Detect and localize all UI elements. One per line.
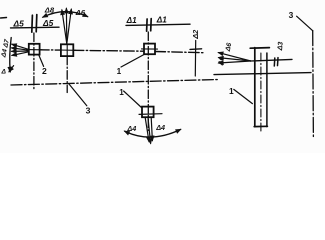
support square 4 — [142, 107, 154, 118]
svg-text:Δ4: Δ4 — [126, 124, 136, 133]
wire: main centre line segment 1 — [40, 49, 61, 51]
svg-text:Δ6: Δ6 — [218, 56, 227, 67]
svg-text:Δ4: Δ4 — [155, 123, 165, 132]
node: top cap of plate — [250, 47, 269, 50]
wire: cross inside support 1 — [27, 49, 43, 51]
wire: main centre line segment 3 — [155, 52, 204, 53]
wire: common vertical axis of supports 3 and 4 (dash-dot) — [147, 32, 149, 131]
wire: stray dash top-left corner — [1, 17, 7, 20]
svg-text:1: 1 — [117, 67, 122, 76]
node: label 2 with leader — [39, 55, 44, 66]
node: label 1 lower with leader — [124, 91, 142, 108]
svg-text:Δ6: Δ6 — [75, 8, 86, 17]
node: label 1 of right figure with leader — [234, 89, 253, 103]
svg-text:1: 1 — [119, 88, 124, 97]
svg-text:Δ6: Δ6 — [225, 42, 234, 53]
wire: lower horizontal line of right figure — [214, 73, 311, 75]
node: fan of arrows below support 4 — [145, 118, 149, 142]
wire: vertical axis of support 1 (dash-dot) — [33, 33, 35, 91]
node: parallelism annotation ∆5 line above support 1 — [11, 26, 60, 29]
node: dimension ∆2 at right end of centre line — [194, 41, 196, 77]
node: parallel bars on axis of support 1 — [31, 15, 34, 32]
node: label 1 upper with leader — [121, 55, 144, 67]
svg-text:Δ1: Δ1 — [126, 16, 137, 25]
svg-text:Δ5: Δ5 — [13, 19, 25, 29]
svg-text:Δ1: Δ1 — [156, 15, 167, 24]
node: label 3 with leader — [69, 84, 87, 106]
svg-text:Δ: Δ — [1, 69, 7, 76]
node: bottom cap of plate — [254, 125, 267, 127]
node: arc over support 2 — [43, 12, 88, 18]
svg-text:Δ5: Δ5 — [42, 18, 54, 28]
node: parallel bars on axis of support 3 — [146, 19, 149, 31]
svg-text:Δ3: Δ3 — [277, 41, 285, 51]
wire: main centre line segment 2 — [73, 49, 144, 52]
wire: short horizontal line through support 4 — [139, 113, 162, 116]
support square 3 — [144, 44, 155, 55]
node: parallelism annotation ∆1 above support 3 — [126, 24, 190, 25]
svg-text:3: 3 — [289, 10, 294, 20]
support square 1 — [29, 44, 40, 55]
node: arc below support 4 — [125, 129, 181, 137]
node: fan of arrows into right figure — [218, 53, 250, 61]
svg-text:2: 2 — [42, 66, 47, 76]
node: fan of arrows above support 2 — [62, 10, 67, 44]
wire: upper horizontal line of right figure — [251, 59, 292, 61]
wire: axis of plate (dash-dot) — [260, 53, 262, 132]
node: small arrow with label near left edge bottom — [9, 66, 14, 72]
node: label 3 top right with leader — [297, 16, 313, 31]
svg-text:3: 3 — [86, 106, 91, 116]
node: parallel bars right of plate — [273, 58, 276, 66]
node: fan of locating arrows into support 1 — [12, 44, 29, 49]
svg-text:Δ2: Δ2 — [191, 29, 200, 40]
wire: vertical axis of support 2 (dash-dot) — [66, 56, 68, 92]
wire: right vertical boundary line (long dash-dot) — [312, 31, 315, 139]
support square 2 — [61, 44, 73, 56]
svg-text:Δ8: Δ8 — [44, 5, 55, 14]
svg-text:1: 1 — [229, 86, 234, 96]
wire: cross inside support 2 — [59, 49, 76, 51]
wire: lower auxiliary centre line (dash-dot) — [11, 80, 218, 86]
node: datum arc at left edge — [10, 38, 11, 72]
column part: right figure vertical plate — [254, 48, 256, 127]
wire: cross inside support 3 — [142, 48, 158, 50]
